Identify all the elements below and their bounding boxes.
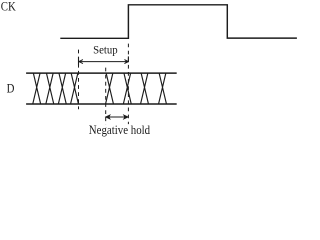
dashed line setup-left x=78.5 [78,50,80,110]
dashed line clock-edge x=128.4 [127,44,129,125]
svg-text:Negative hold: Negative hold [89,123,151,137]
data bus bottom rail [26,103,177,105]
setup arrow [79,56,129,65]
svg-text:Setup: Setup [93,43,118,57]
clock waveform CK [60,5,297,39]
data transitions group 1 [33,73,79,104]
svg-text:CK: CK [1,0,17,14]
svg-text:D: D [7,82,15,96]
dashed line hold-left x=105.7 [105,68,107,125]
data transitions group 2 [106,73,167,104]
data bus top rail [26,72,177,74]
negative hold arrow [106,115,129,119]
